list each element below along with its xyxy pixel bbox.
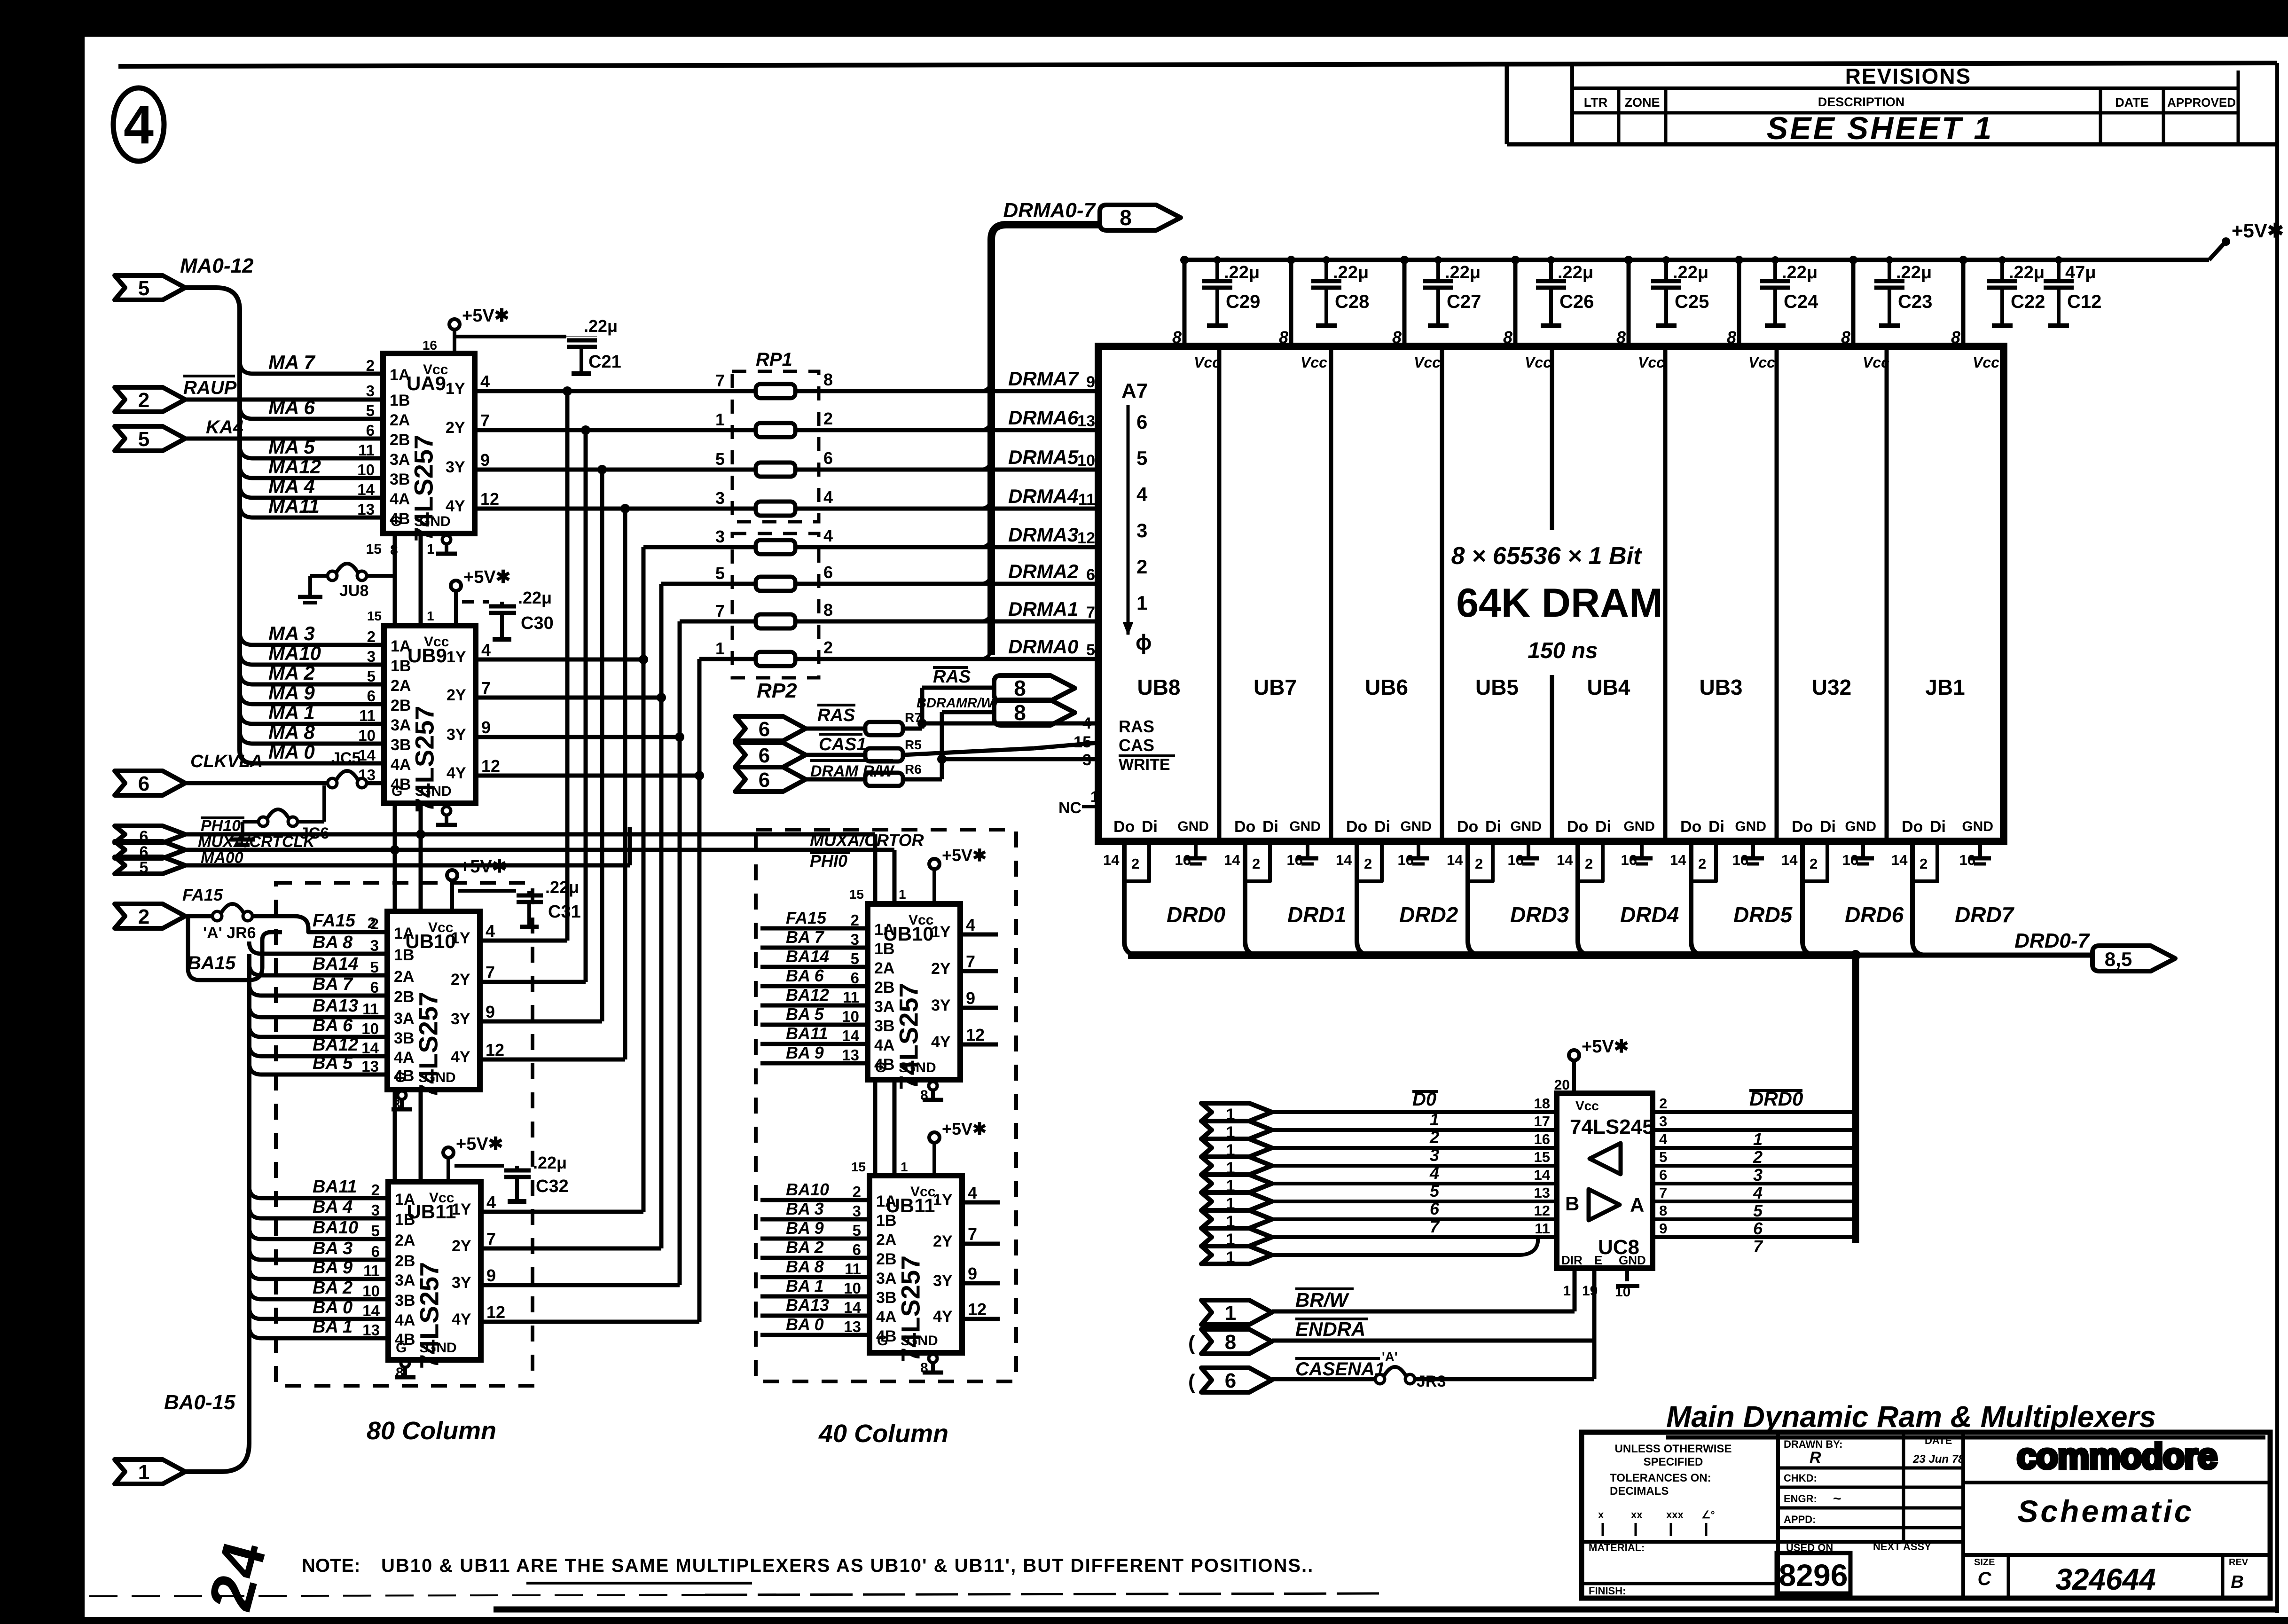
sheet bottom faint line <box>89 1595 705 1596</box>
output stubs UB10-prime <box>960 933 998 937</box>
svg-text:BA 4: BA 4 <box>313 1197 353 1217</box>
svg-text:4: 4 <box>1659 1131 1668 1147</box>
svg-text:8: 8 <box>823 370 833 389</box>
wire MA8 from MA bus to UB9 <box>240 730 384 744</box>
svg-text:8: 8 <box>1279 328 1288 347</box>
capacitor cell divider / Vcc feed <box>1851 260 1856 346</box>
svg-text:6: 6 <box>759 718 770 741</box>
wire DRMA3 stair to RP2 <box>643 545 756 549</box>
svg-text:11: 11 <box>843 989 859 1006</box>
svg-text:JC5: JC5 <box>331 749 360 767</box>
svg-text:SPECIFIED: SPECIFIED <box>1644 1456 1703 1468</box>
wire BA6 to UB10-prime <box>760 984 868 989</box>
svg-text:12: 12 <box>480 489 499 509</box>
svg-text:BA 6: BA 6 <box>313 1016 353 1036</box>
wire BA6 from BA bus to UB10 <box>249 1025 387 1037</box>
svg-text:APPROVED: APPROVED <box>2167 95 2236 110</box>
svg-text:BA11: BA11 <box>313 1177 357 1197</box>
svg-text:3: 3 <box>1082 751 1091 769</box>
wire select drop to UB10 pin1 <box>419 834 423 911</box>
svg-text:Do: Do <box>1567 818 1588 836</box>
svg-text:S: S <box>415 784 424 799</box>
bus arrow D7 sheet 1 <box>1201 1228 1272 1246</box>
svg-text:DRMA5: DRMA5 <box>1008 446 1079 468</box>
svg-text:13: 13 <box>844 1318 861 1335</box>
svg-text:BR/W: BR/W <box>1295 1289 1349 1311</box>
svg-text:C28: C28 <box>1335 291 1369 312</box>
svg-text:Do: Do <box>1902 818 1923 836</box>
svg-text:8: 8 <box>1951 328 1960 347</box>
wire UC8 A1 to DRD bundle <box>1653 1128 1856 1132</box>
bus arrow D3 sheet 1 <box>1201 1157 1272 1175</box>
svg-text:GND: GND <box>905 1060 936 1075</box>
svg-text:8: 8 <box>390 542 398 558</box>
DRAM UB8 ground pin <box>1194 841 1198 858</box>
svg-text:.22μ: .22μ <box>2009 263 2045 282</box>
wire BA2 to UB11-prime <box>760 1256 870 1260</box>
svg-text:BA11: BA11 <box>786 1024 828 1043</box>
svg-text:13: 13 <box>842 1046 859 1064</box>
svg-text:3: 3 <box>1753 1165 1763 1185</box>
DRAM chip divider <box>1885 346 1889 841</box>
svg-text:1Y: 1Y <box>452 1200 471 1218</box>
UB11-prime select pins <box>873 1080 878 1176</box>
svg-text:BA 3: BA 3 <box>313 1239 353 1258</box>
svg-text:3: 3 <box>1659 1113 1667 1130</box>
svg-text:4A: 4A <box>876 1308 896 1326</box>
bus arrow KA4 sheet 5 <box>115 426 185 451</box>
wire UB3 Di tie <box>1691 841 1716 881</box>
wire BA12 to UB10-prime <box>760 1004 868 1008</box>
wire BA3 to UB11-prime <box>760 1217 870 1222</box>
svg-text:C32: C32 <box>536 1177 569 1196</box>
svg-text:FA15: FA15 <box>786 908 827 927</box>
wire UC8 A7 to DRD bundle <box>1653 1235 1856 1239</box>
svg-text:Vcc: Vcc <box>909 912 933 928</box>
svg-text:11: 11 <box>1535 1220 1550 1237</box>
svg-text:2B: 2B <box>394 988 414 1006</box>
wire KA4 to UA9 pin 2B <box>185 437 383 441</box>
svg-text:GND: GND <box>1400 819 1432 834</box>
bus arrow RAUP <box>115 387 185 412</box>
svg-text:14: 14 <box>842 1027 859 1044</box>
wire D5 to UC8 <box>1272 1200 1557 1203</box>
svg-text:WRITE: WRITE <box>1119 756 1170 774</box>
svg-text:MATERIAL:: MATERIAL: <box>1589 1542 1645 1553</box>
svg-text:GND: GND <box>420 784 452 799</box>
wire vertical DRMA3 tie <box>642 547 646 1212</box>
svg-text:BA13: BA13 <box>786 1295 829 1315</box>
wire BA13 from BA bus to UB10 <box>249 1005 387 1017</box>
svg-text:5: 5 <box>851 950 859 967</box>
svg-text:DESCRIPTION: DESCRIPTION <box>1818 95 1905 109</box>
svg-text:4A: 4A <box>394 1049 414 1067</box>
svg-text:DRMA6: DRMA6 <box>1008 407 1079 429</box>
svg-text:MA 6: MA 6 <box>268 396 315 418</box>
svg-text:UB3: UB3 <box>1699 675 1742 699</box>
wire UB11 output 3Y <box>481 1283 680 1287</box>
power +5V at UB11 <box>443 1147 454 1158</box>
wire UB4 Do to DRD bundle <box>1578 841 1592 955</box>
bus arrow D7 sheet 1 <box>1201 1246 1272 1264</box>
DRAM array block 64K DRAM <box>1098 346 2004 841</box>
sheet bottom border line <box>494 1607 2277 1613</box>
svg-text:3B: 3B <box>874 1017 894 1035</box>
svg-text:3Y: 3Y <box>451 1010 470 1028</box>
svg-text:7: 7 <box>1753 1237 1763 1256</box>
svg-text:BDRAMR/W: BDRAMR/W <box>917 696 995 711</box>
resistor R6 <box>806 777 864 782</box>
svg-text:Di: Di <box>1930 818 1946 836</box>
wire UB11 output 1Y <box>481 1210 643 1214</box>
capacitor C23 <box>1888 260 1891 281</box>
svg-text:2Y: 2Y <box>447 686 466 704</box>
wire UC8 A6 to DRD bundle <box>1653 1217 1856 1221</box>
svg-text:CASENA1: CASENA1 <box>1295 1359 1385 1380</box>
svg-text:9: 9 <box>486 1266 496 1285</box>
bus arrow MA00 sheet 5 <box>115 857 185 874</box>
svg-text:G: G <box>877 1333 888 1349</box>
svg-text:12: 12 <box>486 1040 504 1059</box>
svg-text:2: 2 <box>823 409 833 428</box>
svg-text:5: 5 <box>1659 1149 1667 1165</box>
wire DRMA5 from UA9 through RP1 <box>475 468 756 472</box>
wire DRMA6 from UA9 through RP1 <box>475 428 756 432</box>
svg-text:5: 5 <box>138 277 149 300</box>
wire BA3 from BA bus to UB11 <box>249 1247 388 1260</box>
svg-text:CLKVLA: CLKVLA <box>190 752 263 771</box>
svg-text:.22μ: .22μ <box>545 878 579 897</box>
svg-text:3: 3 <box>366 382 375 400</box>
svg-text:Do: Do <box>1346 818 1367 836</box>
svg-text:8: 8 <box>1014 676 1026 700</box>
svg-text:2A: 2A <box>394 968 414 986</box>
svg-text:CHKD:: CHKD: <box>1784 1472 1817 1484</box>
bus arrow D5 sheet 1 <box>1201 1193 1272 1210</box>
svg-text:2A: 2A <box>876 1231 896 1249</box>
wire BA8 from BA bus to UB10 <box>249 941 387 954</box>
svg-text:1A: 1A <box>874 921 894 939</box>
svg-text:13: 13 <box>1534 1185 1550 1201</box>
svg-text:3A: 3A <box>390 451 410 469</box>
svg-text:4Y: 4Y <box>447 764 466 782</box>
svg-text:2Y: 2Y <box>931 960 951 978</box>
wire UC8 A4 to DRD bundle <box>1653 1182 1856 1185</box>
svg-text:6: 6 <box>1659 1167 1667 1183</box>
svg-text:6: 6 <box>366 422 375 439</box>
svg-text:14: 14 <box>357 481 375 498</box>
resistor RP2-4 <box>756 652 795 666</box>
wire PH10 drop to UB10-prime pin 15 <box>873 834 878 904</box>
svg-text:1A: 1A <box>391 637 411 655</box>
svg-text:BA 9: BA 9 <box>786 1218 824 1238</box>
wire BA13 to UB11-prime <box>760 1314 870 1318</box>
svg-text:11: 11 <box>359 707 376 724</box>
capacitor C30 <box>489 604 516 609</box>
svg-text:5: 5 <box>715 564 725 583</box>
svg-text:R6: R6 <box>905 762 922 777</box>
svg-text:.22μ: .22μ <box>1333 263 1369 282</box>
wire UB9 output 2Y <box>476 696 661 700</box>
svg-text:14: 14 <box>1557 852 1573 868</box>
capacitor C26 <box>1549 260 1553 281</box>
svg-text:2A: 2A <box>874 959 894 977</box>
svg-text:3Y: 3Y <box>931 996 951 1014</box>
svg-text:1: 1 <box>1430 1110 1439 1129</box>
wire BA1 from BA bus to UB11 <box>249 1326 388 1338</box>
svg-text:+5V✱: +5V✱ <box>1582 1037 1629 1057</box>
svg-text:4Y: 4Y <box>933 1308 953 1326</box>
bus arrow CLKVLA sheet 6 <box>115 771 185 795</box>
jumper JR6 <box>212 911 222 921</box>
svg-text:6: 6 <box>367 687 376 705</box>
svg-text:Di: Di <box>1595 818 1611 836</box>
wire D6 to UC8 <box>1272 1217 1557 1221</box>
resistor pack RP2 outline <box>732 533 819 678</box>
svg-text:5: 5 <box>1430 1181 1440 1200</box>
svg-text:G: G <box>392 784 402 799</box>
svg-text:8: 8 <box>1392 328 1402 347</box>
scan border black bar bottom <box>82 1617 2288 1624</box>
wire U32 Do to DRD bundle <box>1802 841 1817 955</box>
svg-text:5: 5 <box>371 1222 380 1240</box>
svg-text:commodore: commodore <box>2017 1436 2217 1476</box>
svg-text:2Y: 2Y <box>452 1237 471 1255</box>
bus arrow DRD0-7 to sheets 8,5 <box>2092 946 2175 971</box>
wire DRMA1 stair to RP2 <box>680 620 756 624</box>
wire vertical DRMA7 tie <box>565 391 570 941</box>
svg-text:7: 7 <box>481 678 491 698</box>
svg-text:12: 12 <box>481 756 500 776</box>
svg-text:FA15: FA15 <box>182 885 223 904</box>
svg-text:1: 1 <box>1226 1248 1235 1266</box>
svg-text:R: R <box>1810 1449 1821 1467</box>
svg-text:PH10: PH10 <box>201 817 241 835</box>
svg-text:8: 8 <box>823 600 833 620</box>
svg-text:3: 3 <box>367 648 376 665</box>
svg-text:2: 2 <box>1429 1128 1439 1147</box>
svg-text:NEXT ASSY: NEXT ASSY <box>1873 1541 1931 1553</box>
svg-text:14: 14 <box>1447 852 1463 868</box>
power +5V at UB10-prime <box>929 859 940 869</box>
title block inner lines <box>1776 1432 1780 1598</box>
svg-text:15: 15 <box>366 541 382 557</box>
power +5V at UB9 <box>451 581 461 591</box>
wire BA10 to UB11-prime <box>760 1198 870 1202</box>
svg-text:8: 8 <box>1120 205 1132 230</box>
svg-text:1B: 1B <box>390 392 410 409</box>
svg-text:1B: 1B <box>391 657 411 675</box>
wire UC8 A5 to DRD bundle <box>1653 1200 1856 1203</box>
svg-text:BA15: BA15 <box>188 953 236 973</box>
svg-text:BA 1: BA 1 <box>313 1317 353 1337</box>
svg-text:UB8: UB8 <box>1137 675 1180 699</box>
svg-text:8: 8 <box>1172 328 1182 347</box>
svg-text:.22μ: .22μ <box>1896 263 1932 282</box>
svg-text:3Y: 3Y <box>447 726 466 744</box>
svg-text:BA 7: BA 7 <box>786 927 825 947</box>
svg-text:DRMA4: DRMA4 <box>1008 485 1078 507</box>
svg-text:U32: U32 <box>1812 675 1851 699</box>
svg-text:14: 14 <box>1224 852 1240 868</box>
wire UB9 output 3Y <box>476 735 680 739</box>
svg-text:8: 8 <box>920 1088 928 1103</box>
svg-text:5: 5 <box>367 667 376 685</box>
svg-text:CAS: CAS <box>1119 736 1154 755</box>
capacitor C21 <box>566 336 597 337</box>
wire MA00 row <box>185 863 630 868</box>
wire BA0-15 to BA bus <box>185 954 249 1472</box>
svg-text:2: 2 <box>1475 855 1483 872</box>
svg-text:Vcc: Vcc <box>424 634 449 650</box>
resistor RP2-1 <box>756 540 795 554</box>
svg-text:6: 6 <box>1753 1219 1763 1238</box>
svg-text:6: 6 <box>371 1243 380 1260</box>
wire UB9 pin15 down to MUXA row <box>393 803 397 850</box>
svg-text:MA 9: MA 9 <box>268 682 315 704</box>
wire MA2 from MA bus to UB9 <box>240 671 384 684</box>
svg-text:GND: GND <box>1177 819 1209 834</box>
svg-text:C31: C31 <box>548 902 581 922</box>
svg-text:MA 1: MA 1 <box>268 701 315 723</box>
wire U32 Di tie <box>1802 841 1827 881</box>
wire FA15 to jumper JR6 <box>185 914 214 918</box>
svg-text:10: 10 <box>358 727 376 744</box>
svg-text:3Y: 3Y <box>933 1272 953 1290</box>
svg-text:2: 2 <box>853 1183 861 1200</box>
multiplexer UB9 74LS257 <box>384 626 476 803</box>
svg-text:Do: Do <box>1113 818 1135 836</box>
80 column dashed outline <box>276 883 533 1386</box>
svg-text:13: 13 <box>358 766 376 784</box>
DRAM UB7 ground pin <box>1306 841 1309 858</box>
svg-text:7: 7 <box>1086 604 1095 621</box>
wire BA9 from BA bus to UB11 <box>249 1267 388 1279</box>
svg-text:S: S <box>419 1340 429 1356</box>
svg-text:1: 1 <box>1753 1130 1763 1149</box>
svg-text:GND: GND <box>1845 819 1876 834</box>
svg-text:3: 3 <box>715 488 725 508</box>
svg-text:GND: GND <box>907 1333 938 1349</box>
wire select drop to UB10 pin15 <box>393 850 397 911</box>
svg-text:DRD6: DRD6 <box>1845 902 1904 927</box>
svg-text:7: 7 <box>486 963 495 982</box>
capacitor cell divider / Vcc feed <box>1961 260 1966 346</box>
svg-text:15: 15 <box>1073 733 1091 751</box>
wire UB8 Di tie <box>1124 841 1149 881</box>
svg-text:1B: 1B <box>876 1212 896 1230</box>
wire vertical DRMA4 tie <box>623 509 627 1059</box>
svg-text:8: 8 <box>1503 328 1512 347</box>
svg-text:.22μ: .22μ <box>518 588 552 607</box>
capacitor C32 <box>504 1169 531 1173</box>
svg-text:14: 14 <box>1103 852 1120 868</box>
svg-text:UNLESS OTHERWISE: UNLESS OTHERWISE <box>1615 1443 1732 1455</box>
wire vertical DRMA0 tie <box>697 659 702 1322</box>
svg-text:2: 2 <box>371 1181 380 1199</box>
DRAM UB4 ground pin <box>1640 841 1644 858</box>
svg-text:.22μ: .22μ <box>1673 263 1708 282</box>
svg-text:9: 9 <box>480 450 490 470</box>
svg-text:Vcc: Vcc <box>1863 354 1889 371</box>
wire DRMA7 from UA9 through RP1 <box>475 389 756 393</box>
svg-text:Do: Do <box>1680 818 1701 836</box>
resistor RP1-3 <box>756 463 795 477</box>
svg-text:1: 1 <box>1225 1302 1236 1325</box>
svg-text:BA12: BA12 <box>313 1035 358 1055</box>
wire JR6 to UB10 pin 1A <box>252 916 387 932</box>
wire JC6 to ground <box>243 820 259 824</box>
wire ENDRA to UC8 E <box>1272 1339 1594 1343</box>
svg-text:6: 6 <box>1136 411 1147 433</box>
svg-text:B: B <box>1565 1193 1579 1215</box>
svg-text:7: 7 <box>1430 1217 1440 1236</box>
svg-text:150 ns: 150 ns <box>1528 638 1598 663</box>
capacitor cell divider / Vcc feed <box>1289 260 1293 346</box>
capacitor cell divider / Vcc feed <box>1183 260 1187 346</box>
svg-text:C30: C30 <box>521 613 554 633</box>
40 column dashed outline <box>756 830 1016 1381</box>
svg-text:UB6: UB6 <box>1365 675 1408 699</box>
svg-text:4Y: 4Y <box>452 1310 471 1328</box>
svg-text:C12: C12 <box>2067 291 2101 312</box>
svg-text:BA14: BA14 <box>313 954 358 974</box>
multiplexer UB11' 74LS257 <box>870 1176 962 1353</box>
svg-text:4A: 4A <box>874 1036 894 1054</box>
svg-text:S: S <box>899 1060 908 1075</box>
svg-text:4Y: 4Y <box>446 497 465 515</box>
svg-text:JU8: JU8 <box>339 582 368 600</box>
svg-text:MA 5: MA 5 <box>268 436 315 458</box>
jumper JU8 <box>328 571 337 581</box>
svg-text:12: 12 <box>486 1302 505 1322</box>
ground symbol below UB11 <box>401 1359 409 1367</box>
svg-text:Di: Di <box>1142 818 1158 836</box>
wire D3 to UC8 <box>1272 1164 1557 1168</box>
wire +5V to C21 <box>454 335 566 338</box>
svg-text:4: 4 <box>1429 1163 1439 1183</box>
svg-text:16: 16 <box>1534 1131 1550 1147</box>
bus arrow D2 sheet 1 <box>1201 1139 1272 1157</box>
wire +5V to C31 <box>458 889 516 893</box>
svg-text:RP2: RP2 <box>757 679 797 702</box>
wire D7 to UC8 <box>1272 1235 1557 1239</box>
svg-text:16: 16 <box>423 338 437 353</box>
bus arrow RAS to sheet 8 <box>994 675 1075 701</box>
svg-text:4: 4 <box>486 1193 496 1212</box>
capacitor C24 <box>1773 260 1777 281</box>
svg-text:2: 2 <box>370 915 379 933</box>
capacitor C29 <box>1215 260 1219 281</box>
wire UB9 pin1 down to PH10 row <box>419 803 423 834</box>
svg-text:RAS: RAS <box>817 706 855 725</box>
svg-text:GND: GND <box>1510 819 1542 834</box>
svg-text:PHI0: PHI0 <box>810 851 847 871</box>
svg-text:.22μ: .22μ <box>1558 263 1593 282</box>
svg-text:12: 12 <box>968 1300 987 1319</box>
svg-text:8: 8 <box>1225 1331 1236 1354</box>
svg-text:∠°: ∠° <box>1701 1509 1715 1521</box>
svg-text:Do: Do <box>1234 818 1255 836</box>
wire DRMA2 stair to RP2 <box>661 582 756 586</box>
wire BA14 to UB10-prime <box>760 965 868 969</box>
svg-text:Vcc: Vcc <box>1973 354 1999 371</box>
wire BA5 from BA bus to UB10 <box>249 1062 387 1075</box>
wire D2 to UC8 <box>1272 1146 1557 1150</box>
wire BA15 bypass loop <box>188 916 282 980</box>
bus arrow BA0-15 sheet 1 <box>115 1459 185 1484</box>
svg-text:DRMA0-7: DRMA0-7 <box>1003 199 1096 222</box>
